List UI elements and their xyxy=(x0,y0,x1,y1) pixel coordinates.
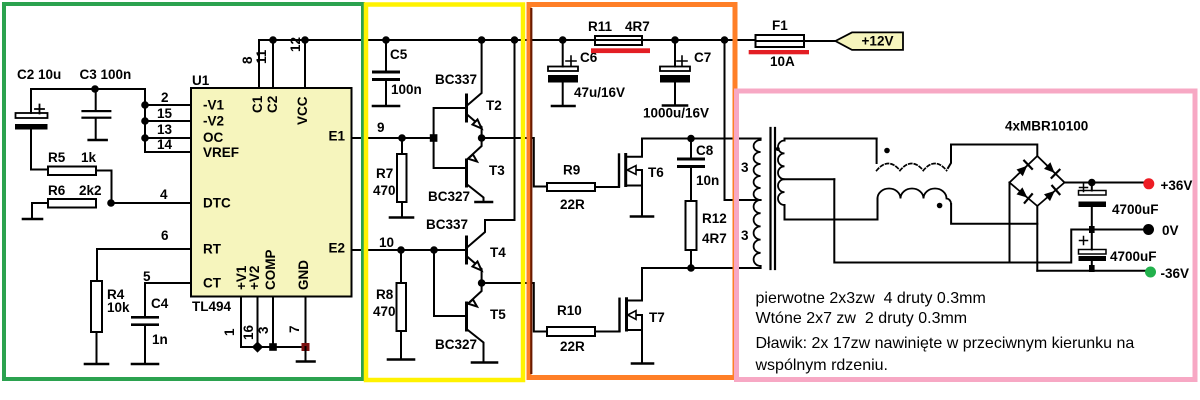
yellow frame xyxy=(366,5,523,381)
diode D4 lower-right xyxy=(1044,186,1060,201)
fuse F1 xyxy=(756,18,836,69)
resistor R7 xyxy=(373,138,407,218)
red mark under R11 xyxy=(591,48,650,53)
resistor R9 xyxy=(547,163,619,213)
svg-text:Dławik: 2x 17zw nawinięte w pr: Dławik: 2x 17zw nawinięte w przeciwnym k… xyxy=(756,335,1135,352)
ground T6 xyxy=(631,215,653,218)
svg-text:10k: 10k xyxy=(107,300,130,315)
svg-text:4xMBR10100: 4xMBR10100 xyxy=(1005,119,1088,134)
resistor R8 xyxy=(373,250,406,360)
transformer primary winding xyxy=(754,140,761,266)
svg-text:R9: R9 xyxy=(563,163,580,178)
ground T5 xyxy=(472,361,497,364)
terminal -36V green xyxy=(1145,267,1156,278)
diode D1 upper-left xyxy=(1017,161,1033,177)
node COMP square xyxy=(269,343,277,351)
svg-text:pierwotne 2x3zw 4 druty 0.3mm: pierwotne 2x3zw 4 druty 0.3mm xyxy=(756,290,986,307)
node T4 bus rail xyxy=(511,36,519,44)
svg-text:-V1: -V1 xyxy=(203,98,225,113)
node R12 bottom xyxy=(687,264,695,272)
capacitor C2 xyxy=(15,67,61,170)
transistor T3 BC327 xyxy=(428,138,505,204)
wire pin 12 VCC riser xyxy=(304,40,306,88)
node cap1 top xyxy=(1088,179,1096,187)
wire -36V line xyxy=(1037,270,1145,272)
capacitor 4700uF upper xyxy=(1079,183,1159,230)
ground T3 xyxy=(476,201,493,204)
svg-text:BC337: BC337 xyxy=(435,72,477,87)
resistor R4 xyxy=(91,281,130,364)
terminal +36V red xyxy=(1143,178,1154,189)
svg-text:BC327: BC327 xyxy=(428,189,470,204)
svg-text:16: 16 xyxy=(241,324,256,340)
svg-text:22R: 22R xyxy=(560,197,585,212)
wire pin 1 +V1 riser xyxy=(240,297,242,348)
svg-text:OC: OC xyxy=(203,130,224,145)
svg-text:R5: R5 xyxy=(48,150,66,165)
wire T2/T3 output to R9 xyxy=(482,138,547,187)
diode D2 upper-right xyxy=(1044,162,1060,178)
ground C6 xyxy=(552,105,575,108)
svg-text:T2: T2 xyxy=(486,98,502,113)
terminal 0V black xyxy=(1143,224,1154,235)
node C2 pin rail xyxy=(269,36,277,44)
transistor T4 BC337 xyxy=(426,217,515,283)
wire T4 collector bus to rail xyxy=(514,40,516,220)
svg-text:C3 100n: C3 100n xyxy=(80,67,132,82)
svg-text:8: 8 xyxy=(240,56,255,64)
op-amp U1 TL494 chip body xyxy=(191,88,352,297)
wire GND to ground xyxy=(305,347,307,362)
diode bridge 4xMBR10100 diamond xyxy=(1010,156,1065,206)
svg-text:6: 6 xyxy=(161,228,169,243)
pink frame xyxy=(737,91,1196,380)
svg-text:1n: 1n xyxy=(152,332,168,347)
svg-text:C2 10u: C2 10u xyxy=(17,67,61,82)
node C6 rail xyxy=(559,36,567,44)
ground R7 xyxy=(390,216,413,219)
svg-text:1k: 1k xyxy=(81,150,97,165)
node pin13 xyxy=(141,134,149,142)
svg-text:R11: R11 xyxy=(588,19,613,34)
wire riser to primary center tap xyxy=(725,40,761,200)
svg-text:+V2: +V2 xyxy=(247,266,262,290)
svg-text:1000u/16V: 1000u/16V xyxy=(643,106,709,121)
ground R8 xyxy=(388,358,414,361)
svg-text:COMP: COMP xyxy=(263,250,278,291)
wire pin 6 RT xyxy=(97,249,191,281)
wire base bus T4 T5 xyxy=(434,250,467,316)
wire pin 7 GND riser xyxy=(305,297,307,348)
node T2/T3 base bus square xyxy=(430,134,438,142)
svg-text:BC327: BC327 xyxy=(435,337,477,352)
node +V2 diamond xyxy=(252,341,263,352)
svg-text:22R: 22R xyxy=(560,339,585,354)
svg-text:10A: 10A xyxy=(770,54,795,69)
transistor T5 BC327 xyxy=(435,283,506,363)
svg-text:4700uF: 4700uF xyxy=(1110,249,1157,264)
choke L1 dashed xyxy=(877,164,947,171)
wire pin 2 xyxy=(145,104,191,106)
svg-text:10: 10 xyxy=(379,235,394,250)
+12V flag xyxy=(835,32,903,50)
wire choke L2 left lead xyxy=(877,199,879,220)
node GND port dark red square xyxy=(302,343,310,351)
capacitor C3 xyxy=(80,67,132,140)
diode D3 lower-left xyxy=(1017,187,1033,202)
svg-text:T7: T7 xyxy=(649,310,665,325)
node C7 rail xyxy=(671,36,679,44)
wire pin 13 xyxy=(145,137,191,139)
svg-text:R12: R12 xyxy=(702,211,727,226)
svg-text:T5: T5 xyxy=(490,307,506,322)
wire pin 14 xyxy=(145,151,191,153)
svg-text:VREF: VREF xyxy=(203,145,239,160)
wire choke L1 left lead xyxy=(876,139,878,164)
svg-text:VCC: VCC xyxy=(295,96,310,125)
svg-text:C2: C2 xyxy=(265,96,280,113)
svg-text:E1: E1 xyxy=(328,129,345,144)
node VCC rail xyxy=(301,36,309,44)
ground C3 xyxy=(89,139,107,142)
capacitor C7 xyxy=(643,40,711,121)
node R8 junction xyxy=(397,246,405,254)
node cap2 bottom -36V xyxy=(1089,265,1095,272)
transistor T2 BC337 xyxy=(435,40,502,138)
svg-text:1: 1 xyxy=(222,328,237,336)
node C5 rail xyxy=(382,36,390,44)
transformer secondary winding xyxy=(778,141,785,206)
ground R4 xyxy=(85,363,108,366)
wire pin 8 C1 riser xyxy=(258,40,260,88)
svg-text:GND: GND xyxy=(296,260,311,290)
node pin4 junction xyxy=(107,199,115,207)
wire choke L2 right lead xyxy=(951,204,1037,224)
svg-text:2: 2 xyxy=(161,90,169,105)
svg-text:-36V: -36V xyxy=(1161,266,1190,281)
resistor R12 xyxy=(686,201,727,268)
svg-text:5: 5 xyxy=(143,269,151,284)
capacitor 4700uF lower xyxy=(1079,230,1157,271)
svg-text:47u/16V: 47u/16V xyxy=(574,85,625,100)
svg-text:+12V: +12V xyxy=(862,34,894,49)
svg-text:C7: C7 xyxy=(694,50,711,65)
ground chip GND xyxy=(297,360,315,363)
svg-text:-V2: -V2 xyxy=(203,114,224,129)
svg-text:0V: 0V xyxy=(1162,223,1179,238)
transistor T6 MOSFET xyxy=(619,139,664,217)
wire bridge bottom to -36V line xyxy=(1036,206,1038,271)
svg-text:BC337: BC337 xyxy=(426,217,468,232)
svg-text:3: 3 xyxy=(741,160,749,175)
svg-text:T3: T3 xyxy=(489,163,505,178)
wire E1 pin 9 xyxy=(352,137,434,139)
svg-text:13: 13 xyxy=(157,122,173,137)
wire +36V line xyxy=(1065,182,1145,184)
node C8 top xyxy=(687,135,695,143)
capacitor C4 xyxy=(131,296,169,364)
svg-text:3: 3 xyxy=(741,228,749,243)
capacitor C8 xyxy=(677,139,719,202)
node pin2 xyxy=(141,101,149,109)
node C2/C3 junction xyxy=(91,85,99,93)
node cap1 bottom 0V xyxy=(1089,226,1095,233)
svg-text:wspólnym rdzeniu.: wspólnym rdzeniu. xyxy=(755,357,889,374)
svg-text:R8: R8 xyxy=(376,287,394,302)
choke L2 solid xyxy=(878,189,952,205)
ground C4 xyxy=(132,363,158,366)
svg-text:4700uF: 4700uF xyxy=(1112,202,1159,217)
secondary phase dot xyxy=(776,147,780,151)
choke L1 phase dot xyxy=(884,148,890,154)
ground C5 xyxy=(373,105,399,108)
svg-text:9: 9 xyxy=(377,120,385,135)
svg-text:RT: RT xyxy=(203,242,222,257)
svg-text:2k2: 2k2 xyxy=(79,183,102,198)
resistor R11 xyxy=(588,19,650,45)
svg-text:7: 7 xyxy=(287,325,302,333)
svg-text:T6: T6 xyxy=(648,165,664,180)
wire base bus T2 T3 xyxy=(434,108,467,168)
capacitor C5 xyxy=(372,40,422,106)
svg-text:T4: T4 xyxy=(490,245,506,260)
svg-text:E2: E2 xyxy=(328,241,345,256)
svg-text:4R7: 4R7 xyxy=(625,19,650,34)
node T4/T5 base junction xyxy=(430,246,438,254)
node rail to transformer riser xyxy=(721,36,729,44)
svg-text:R7: R7 xyxy=(376,166,393,181)
wire pin 3 COMP riser xyxy=(272,297,274,348)
red mark under F1 xyxy=(749,50,809,54)
svg-text:TL494: TL494 xyxy=(192,299,232,314)
svg-text:470: 470 xyxy=(373,304,396,319)
svg-text:F1: F1 xyxy=(772,18,788,33)
svg-text:11: 11 xyxy=(254,49,269,64)
ground C7 xyxy=(663,104,687,107)
resistor R6 xyxy=(32,183,102,219)
svg-text:+36V: +36V xyxy=(1161,178,1193,193)
transformer core xyxy=(771,128,776,269)
wire C2 top to C3 to pin bus xyxy=(31,89,145,113)
wire secondary tap lead xyxy=(785,178,835,180)
svg-text:R10: R10 xyxy=(557,303,582,318)
wire secondary top lead xyxy=(785,139,877,141)
node pin15 xyxy=(141,117,149,125)
wire pin 15 xyxy=(145,120,191,122)
wire E2 pin 10 xyxy=(352,249,435,251)
svg-text:10n: 10n xyxy=(696,173,719,188)
svg-text:4R7: 4R7 xyxy=(702,231,727,246)
svg-text:4: 4 xyxy=(160,187,168,202)
resistor R5 xyxy=(31,150,112,203)
orange frame xyxy=(529,5,735,378)
wire T7 drain to transformer xyxy=(642,266,761,268)
wire 0V net from secondary tap xyxy=(834,179,1144,262)
capacitor C6 xyxy=(548,40,625,106)
svg-text:3: 3 xyxy=(256,326,271,334)
wire +12V rail xyxy=(259,39,756,41)
wire T6 drain to transformer xyxy=(642,138,761,140)
green frame xyxy=(4,4,363,379)
svg-text:100n: 100n xyxy=(391,82,422,97)
wire secondary bottom lead xyxy=(785,205,878,220)
svg-text:14: 14 xyxy=(157,137,173,152)
svg-text:CT: CT xyxy=(203,276,222,291)
svg-text:15: 15 xyxy=(157,106,173,121)
dark red line inside orange left border xyxy=(530,8,532,374)
wire bridge left corner down xyxy=(1009,183,1011,263)
svg-text:C4: C4 xyxy=(151,296,169,311)
wire pin 4 DTC xyxy=(111,202,191,204)
wire pin 5 CT xyxy=(145,283,191,316)
ground T7 xyxy=(632,362,653,365)
svg-text:C5: C5 xyxy=(390,47,408,62)
svg-text:470: 470 xyxy=(373,183,396,198)
ground R6 xyxy=(23,218,42,221)
node T2 collector rail xyxy=(478,36,486,44)
wire pin 11 C2 riser xyxy=(272,40,274,88)
wire pin 16 +V2 riser xyxy=(257,297,259,348)
wire pin bus left xyxy=(144,89,146,152)
svg-text:Wtóne 2x7 zw 2 druty 0.3mm: Wtóne 2x7 zw 2 druty 0.3mm xyxy=(756,310,968,327)
svg-text:R6: R6 xyxy=(48,183,66,198)
node T2/T3 emitter junction xyxy=(478,134,486,142)
svg-text:DTC: DTC xyxy=(203,196,231,211)
node R7 junction xyxy=(398,134,406,142)
svg-text:C8: C8 xyxy=(696,143,714,158)
svg-text:U1: U1 xyxy=(192,73,210,88)
choke L2 phase dot xyxy=(937,203,943,209)
resistor R10 xyxy=(547,303,620,354)
node T4/T5 emitter junction xyxy=(478,279,486,287)
wire bottom bus xyxy=(241,346,306,348)
transistor T7 MOSFET xyxy=(620,268,665,364)
wire choke L1 right lead to bridge xyxy=(948,145,1037,169)
svg-text:C1: C1 xyxy=(250,95,265,113)
wire T4/T5 output to R10 xyxy=(482,283,547,332)
